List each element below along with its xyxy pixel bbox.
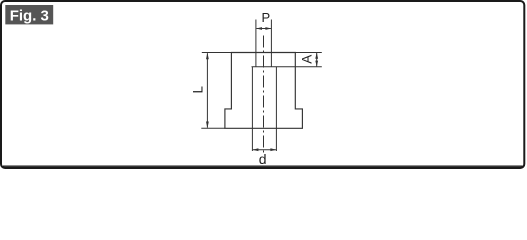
arrowhead A top <box>315 53 318 59</box>
arrowhead P left <box>256 27 262 30</box>
part outline (T-nut body and flange) <box>225 53 303 129</box>
svg-text:L: L <box>191 85 206 93</box>
svg-text:A: A <box>300 55 315 64</box>
stud hole left edge + extension above (for P) <box>255 20 257 67</box>
bottom face extension line left (for L) <box>201 127 225 129</box>
centerline <box>263 36 265 154</box>
arrowhead d left <box>252 148 258 151</box>
arrowhead L bottom <box>206 122 209 129</box>
arrowhead L top <box>206 53 209 60</box>
outer frame <box>1 1 524 168</box>
dimension line L <box>206 53 208 127</box>
svg-text:d: d <box>259 151 267 167</box>
arrowhead A bottom <box>315 61 318 67</box>
stud hole right edge + extension above (for P) <box>270 20 272 67</box>
dimension line d <box>253 149 276 151</box>
bore right edge + extension below (for d) <box>275 67 277 151</box>
svg-text:Fig. 3: Fig. 3 <box>10 7 49 24</box>
counterbore step line + extension right (for A) <box>252 66 322 68</box>
top face extension line right (for A) <box>295 52 322 54</box>
arrowhead d right <box>270 148 276 151</box>
bore left edge + extension below (for d) <box>251 67 253 151</box>
top face extension line left (for L) <box>202 52 232 54</box>
Fig. 3 label box <box>5 5 53 24</box>
dimension line A <box>316 53 318 66</box>
bottom border thickening line <box>3 165 523 167</box>
arrowhead P right <box>265 27 271 30</box>
svg-text:P: P <box>261 10 270 25</box>
dimension line P <box>257 28 271 30</box>
